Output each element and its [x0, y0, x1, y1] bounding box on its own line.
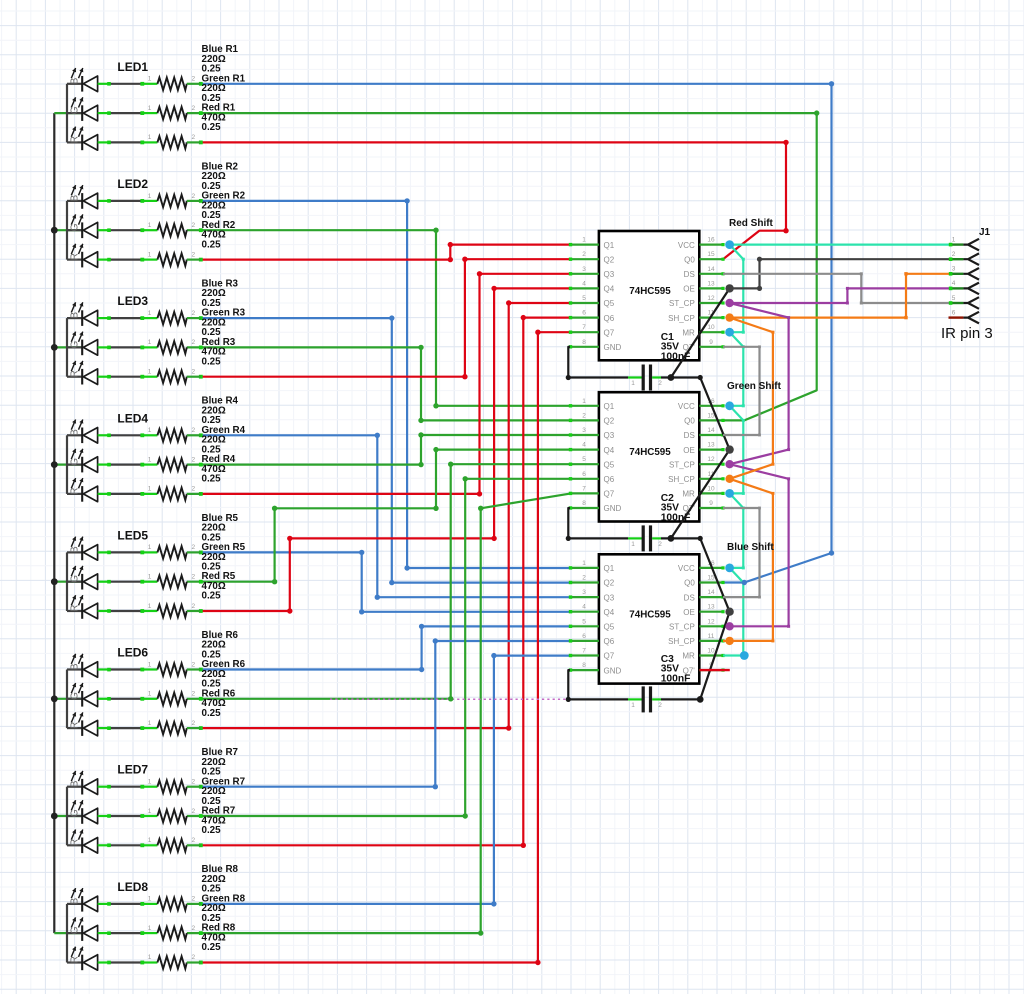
svg-text:14: 14 [707, 589, 715, 596]
svg-text:G: G [69, 926, 80, 934]
svg-text:LED7: LED7 [117, 763, 148, 777]
svg-text:15: 15 [707, 575, 715, 582]
svg-text:B: B [69, 663, 80, 670]
svg-text:VCC: VCC [678, 241, 695, 250]
svg-text:J1: J1 [979, 227, 991, 238]
svg-text:G: G [69, 223, 80, 231]
svg-text:LED3: LED3 [117, 294, 148, 308]
svg-text:1: 1 [148, 808, 152, 815]
svg-text:G: G [69, 575, 80, 583]
svg-text:Q5: Q5 [604, 460, 615, 469]
svg-text:DS: DS [684, 270, 695, 279]
svg-text:7: 7 [582, 324, 586, 331]
svg-text:Q3: Q3 [604, 593, 615, 602]
svg-text:LED2: LED2 [117, 177, 148, 191]
svg-text:Q7: Q7 [604, 652, 615, 661]
svg-text:Q1: Q1 [604, 402, 615, 411]
svg-text:11: 11 [708, 633, 715, 640]
svg-text:Red Shift: Red Shift [729, 218, 774, 229]
svg-text:2: 2 [191, 310, 195, 317]
svg-text:10: 10 [707, 324, 715, 331]
svg-text:1: 1 [148, 251, 152, 258]
svg-text:Q5: Q5 [604, 623, 615, 632]
svg-text:1: 1 [148, 486, 152, 493]
svg-text:B: B [69, 546, 80, 553]
svg-text:4: 4 [582, 604, 586, 611]
svg-text:1: 1 [148, 193, 152, 200]
svg-text:13: 13 [707, 442, 715, 449]
svg-text:B: B [69, 312, 80, 319]
svg-text:12: 12 [707, 295, 715, 302]
svg-text:Q6: Q6 [604, 314, 615, 323]
svg-text:Q1: Q1 [604, 241, 615, 250]
svg-text:2: 2 [191, 369, 195, 376]
svg-text:0.25: 0.25 [202, 122, 222, 133]
svg-text:2: 2 [191, 456, 195, 463]
svg-text:2: 2 [191, 925, 195, 932]
svg-text:2: 2 [191, 720, 195, 727]
svg-text:12: 12 [707, 618, 715, 625]
svg-text:MR: MR [682, 328, 695, 337]
svg-text:1: 1 [582, 398, 586, 405]
svg-text:1: 1 [148, 427, 152, 434]
svg-text:1: 1 [148, 339, 152, 346]
svg-text:MR: MR [682, 490, 695, 499]
svg-text:1: 1 [631, 541, 635, 548]
svg-text:2: 2 [191, 808, 195, 815]
svg-text:1: 1 [148, 925, 152, 932]
svg-text:GND: GND [604, 343, 622, 352]
svg-text:R: R [69, 253, 80, 260]
svg-text:2: 2 [191, 954, 195, 961]
svg-text:12: 12 [707, 456, 715, 463]
svg-text:2: 2 [191, 544, 195, 551]
svg-text:2: 2 [658, 541, 662, 548]
svg-text:2: 2 [582, 412, 586, 419]
svg-text:Q2: Q2 [604, 417, 615, 426]
svg-text:3: 3 [582, 589, 586, 596]
svg-text:Q0: Q0 [684, 417, 695, 426]
svg-text:2: 2 [658, 702, 662, 709]
svg-text:13: 13 [707, 604, 715, 611]
svg-text:1: 1 [148, 134, 152, 141]
svg-text:74HC595: 74HC595 [629, 609, 671, 620]
svg-text:1: 1 [148, 779, 152, 786]
svg-text:2: 2 [191, 251, 195, 258]
svg-text:5: 5 [952, 295, 956, 302]
svg-text:13: 13 [707, 280, 715, 287]
svg-text:2: 2 [191, 105, 195, 112]
svg-text:1: 1 [148, 896, 152, 903]
svg-text:1: 1 [148, 310, 152, 317]
svg-text:R: R [69, 487, 80, 494]
svg-text:8: 8 [582, 500, 586, 507]
svg-text:1: 1 [148, 720, 152, 727]
svg-text:VCC: VCC [678, 564, 695, 573]
svg-text:2: 2 [191, 76, 195, 83]
svg-text:Q4: Q4 [604, 608, 615, 617]
svg-text:2: 2 [952, 251, 956, 258]
svg-text:4: 4 [582, 442, 586, 449]
svg-text:Blue Shift: Blue Shift [727, 542, 774, 553]
svg-text:1: 1 [148, 105, 152, 112]
svg-text:Q3: Q3 [604, 431, 615, 440]
svg-text:10: 10 [707, 485, 715, 492]
svg-text:LED6: LED6 [117, 646, 148, 660]
svg-text:G: G [69, 809, 80, 817]
svg-text:1: 1 [631, 380, 635, 387]
svg-text:R: R [69, 956, 80, 963]
svg-text:2: 2 [191, 779, 195, 786]
svg-text:GND: GND [604, 504, 622, 513]
svg-text:0.25: 0.25 [202, 474, 222, 485]
svg-text:R: R [69, 605, 80, 612]
svg-text:Green Shift: Green Shift [727, 381, 782, 392]
svg-text:GND: GND [604, 666, 622, 675]
svg-text:2: 2 [191, 896, 195, 903]
svg-text:G: G [69, 458, 80, 466]
svg-text:Q2: Q2 [604, 579, 615, 588]
svg-text:9: 9 [709, 339, 713, 346]
svg-text:1: 1 [582, 237, 586, 244]
svg-text:2: 2 [191, 339, 195, 346]
svg-text:5: 5 [582, 295, 586, 302]
svg-text:10: 10 [707, 648, 715, 655]
svg-text:LED8: LED8 [117, 880, 148, 894]
svg-text:Q0: Q0 [684, 255, 695, 264]
svg-text:MR: MR [682, 652, 695, 661]
svg-text:1: 1 [148, 574, 152, 581]
svg-text:4: 4 [582, 280, 586, 287]
svg-text:1: 1 [148, 661, 152, 668]
svg-text:LED5: LED5 [117, 528, 148, 542]
svg-text:ST_CP: ST_CP [669, 460, 695, 469]
svg-text:R: R [69, 722, 80, 729]
svg-text:1: 1 [148, 837, 152, 844]
svg-text:9: 9 [709, 500, 713, 507]
svg-text:Q4: Q4 [604, 446, 615, 455]
svg-text:15: 15 [707, 251, 715, 258]
svg-text:7: 7 [582, 648, 586, 655]
svg-text:1: 1 [148, 222, 152, 229]
svg-text:Q6: Q6 [604, 637, 615, 646]
svg-text:5: 5 [582, 456, 586, 463]
svg-text:B: B [69, 780, 80, 787]
svg-text:Q5: Q5 [604, 299, 615, 308]
svg-text:1: 1 [148, 456, 152, 463]
svg-text:16: 16 [707, 237, 715, 244]
svg-text:2: 2 [191, 661, 195, 668]
svg-text:B: B [69, 194, 80, 201]
svg-text:14: 14 [707, 427, 715, 434]
svg-text:1: 1 [148, 954, 152, 961]
svg-text:3: 3 [952, 266, 956, 273]
svg-text:2: 2 [191, 691, 195, 698]
svg-text:SH_CP: SH_CP [668, 637, 695, 646]
svg-text:0.25: 0.25 [202, 239, 222, 250]
svg-text:Q3: Q3 [604, 270, 615, 279]
svg-text:2: 2 [191, 134, 195, 141]
svg-text:B: B [69, 429, 80, 436]
svg-text:R: R [69, 136, 80, 143]
svg-text:100nF: 100nF [661, 673, 691, 684]
svg-text:8: 8 [582, 662, 586, 669]
svg-text:2: 2 [582, 575, 586, 582]
svg-text:G: G [69, 692, 80, 700]
svg-text:1: 1 [148, 544, 152, 551]
svg-text:2: 2 [191, 222, 195, 229]
svg-text:DS: DS [684, 431, 695, 440]
svg-text:74HC595: 74HC595 [629, 447, 671, 458]
svg-text:B: B [69, 77, 80, 84]
svg-text:Q7: Q7 [604, 490, 615, 499]
svg-text:Q4: Q4 [604, 285, 615, 294]
svg-text:3: 3 [582, 427, 586, 434]
svg-text:2: 2 [582, 251, 586, 258]
svg-text:4: 4 [952, 280, 956, 287]
svg-text:OE: OE [683, 285, 695, 294]
svg-text:Q0: Q0 [684, 579, 695, 588]
svg-text:Q2: Q2 [604, 255, 615, 264]
svg-text:6: 6 [952, 309, 956, 316]
svg-text:1: 1 [582, 560, 586, 567]
svg-text:6: 6 [582, 633, 586, 640]
svg-text:Q6: Q6 [604, 475, 615, 484]
svg-text:14: 14 [707, 266, 715, 273]
svg-text:2: 2 [658, 380, 662, 387]
svg-text:OE: OE [683, 608, 695, 617]
svg-text:IR pin 3: IR pin 3 [941, 325, 993, 342]
svg-text:1: 1 [148, 76, 152, 83]
svg-text:0.25: 0.25 [202, 708, 222, 719]
svg-text:1: 1 [952, 236, 956, 243]
svg-text:G: G [69, 340, 80, 348]
svg-text:74HC595: 74HC595 [629, 286, 671, 297]
svg-text:2: 2 [191, 837, 195, 844]
svg-text:1: 1 [148, 603, 152, 610]
svg-text:7: 7 [582, 485, 586, 492]
svg-text:DS: DS [684, 593, 695, 602]
svg-text:5: 5 [582, 618, 586, 625]
svg-text:VCC: VCC [678, 402, 695, 411]
svg-text:SH_CP: SH_CP [668, 475, 695, 484]
svg-text:6: 6 [582, 310, 586, 317]
svg-text:SH_CP: SH_CP [668, 314, 695, 323]
svg-text:0.25: 0.25 [202, 591, 222, 602]
svg-text:2: 2 [191, 486, 195, 493]
svg-text:3: 3 [582, 266, 586, 273]
svg-text:ST_CP: ST_CP [669, 623, 695, 632]
svg-text:B: B [69, 897, 80, 904]
svg-text:1: 1 [148, 691, 152, 698]
svg-text:2: 2 [191, 427, 195, 434]
svg-text:ST_CP: ST_CP [669, 299, 695, 308]
svg-text:2: 2 [191, 574, 195, 581]
svg-text:LED1: LED1 [117, 60, 148, 74]
svg-text:Q1: Q1 [604, 564, 615, 573]
svg-text:Q7: Q7 [604, 328, 615, 337]
svg-text:0.25: 0.25 [202, 825, 222, 836]
svg-text:R: R [69, 370, 80, 377]
svg-text:OE: OE [683, 446, 695, 455]
svg-text:G: G [69, 106, 80, 114]
svg-text:0.25: 0.25 [202, 356, 222, 367]
svg-text:2: 2 [191, 193, 195, 200]
svg-text:R: R [69, 839, 80, 846]
svg-text:8: 8 [582, 339, 586, 346]
svg-text:1: 1 [631, 702, 635, 709]
svg-text:1: 1 [148, 369, 152, 376]
svg-text:0.25: 0.25 [202, 942, 222, 953]
svg-text:LED4: LED4 [117, 411, 148, 425]
svg-text:2: 2 [191, 603, 195, 610]
svg-text:6: 6 [582, 471, 586, 478]
